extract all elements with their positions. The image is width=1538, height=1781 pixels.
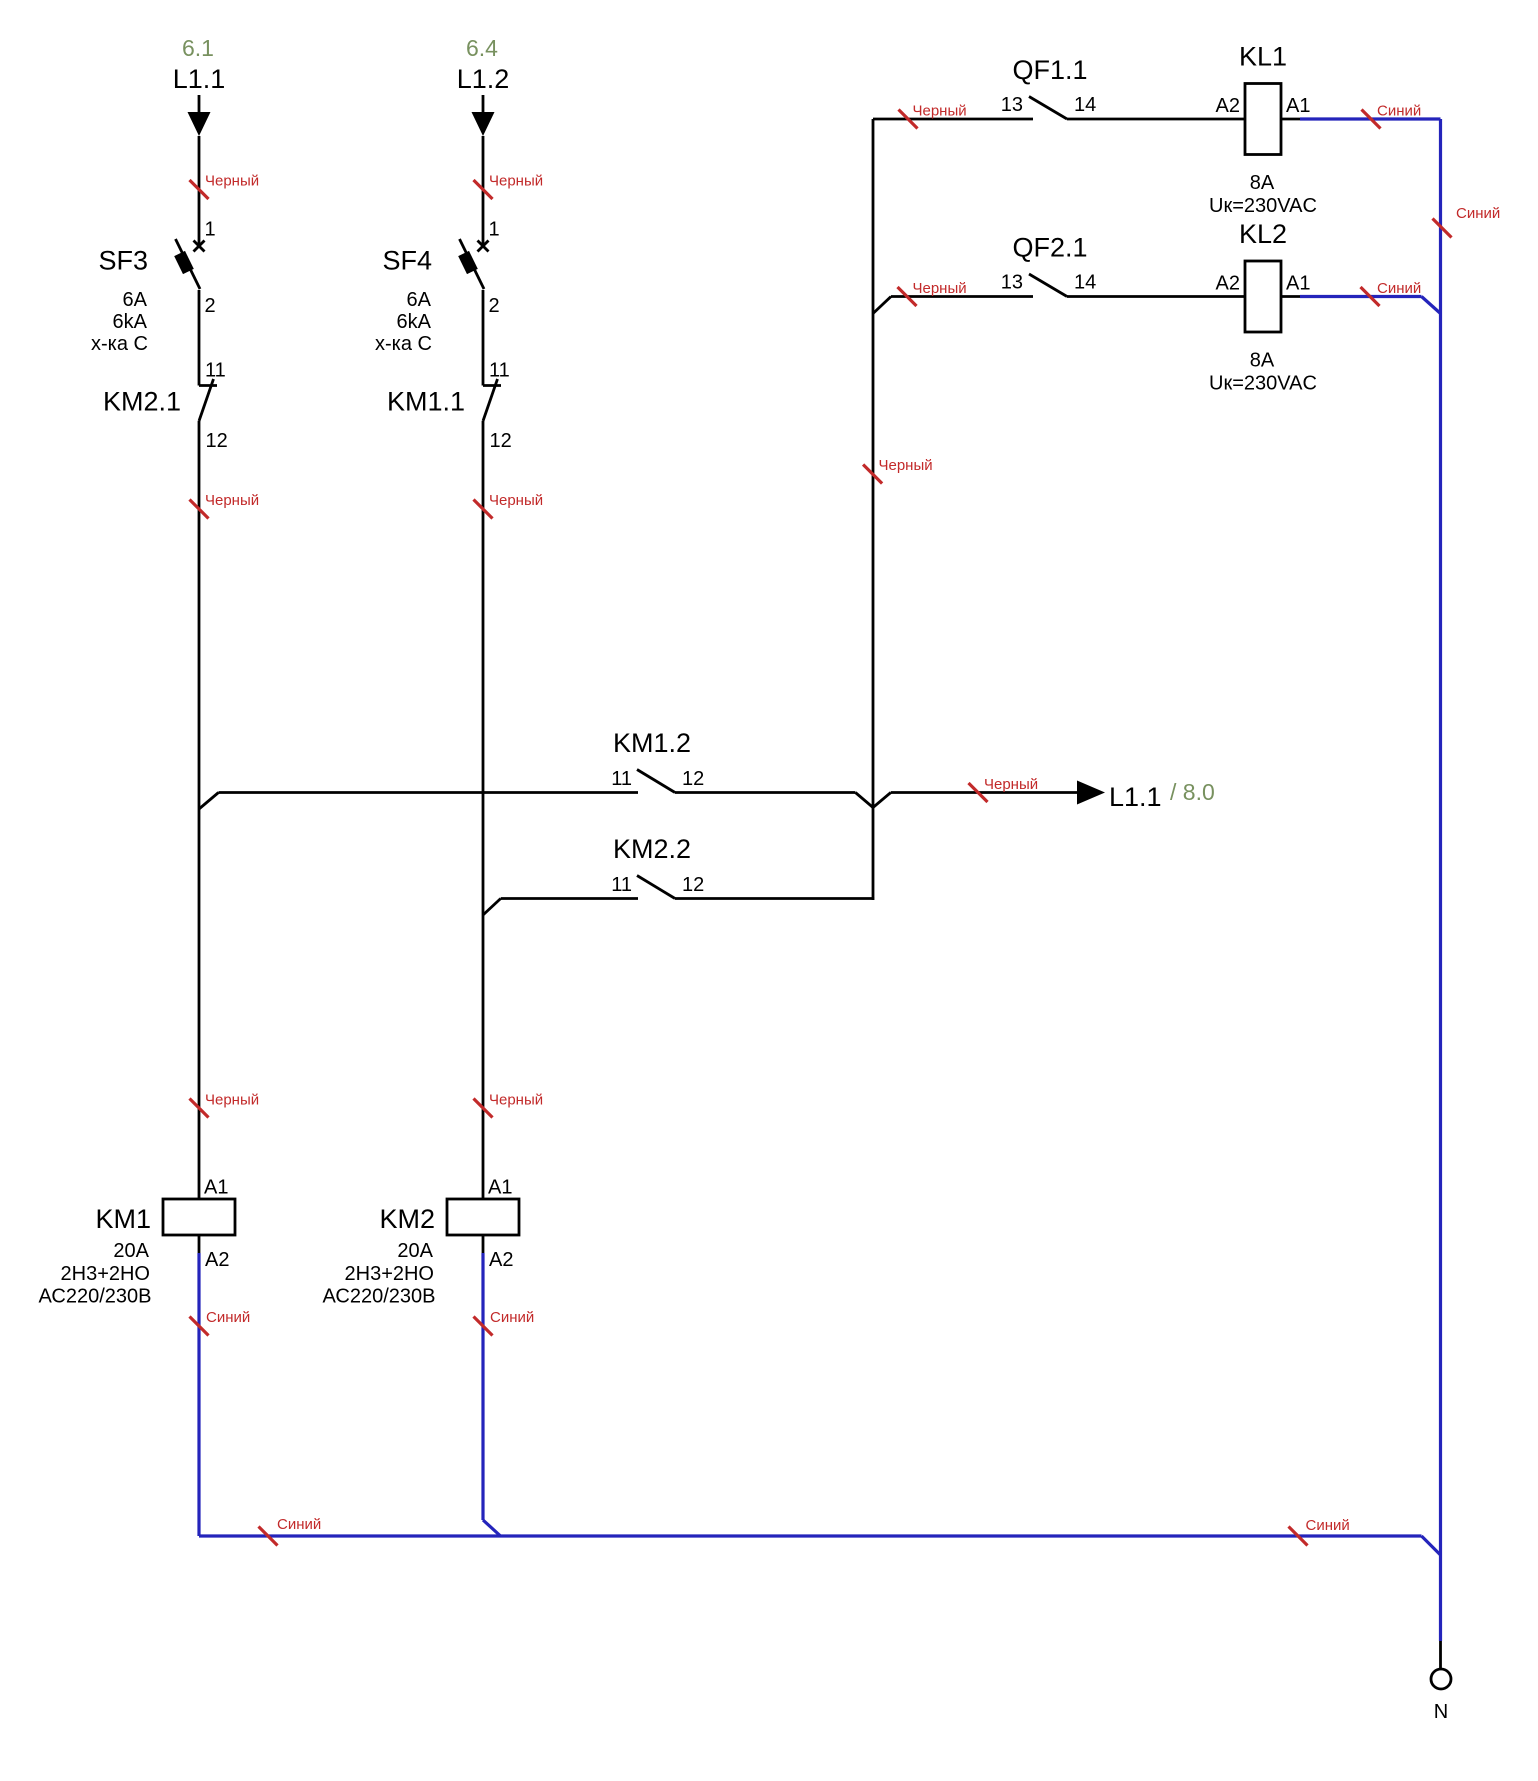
wire KL2 A1 stub bbox=[1281, 295, 1300, 298]
NO contact KM2.2 blade bbox=[637, 876, 675, 899]
svg-text:KL2: KL2 bbox=[1239, 219, 1287, 249]
svg-text:KM1: KM1 bbox=[95, 1204, 151, 1234]
svg-text:L1.1: L1.1 bbox=[173, 64, 226, 94]
wire color slash Черный bbox=[190, 500, 209, 519]
svg-text:6.4: 6.4 bbox=[466, 35, 498, 61]
wire L1.1 entry stub bbox=[198, 95, 201, 114]
wire color slash Черный bbox=[474, 500, 493, 519]
svg-text:13: 13 bbox=[1001, 94, 1023, 116]
wire KM1 A2 stub bbox=[198, 1235, 201, 1253]
svg-text:KM2.1: KM2.1 bbox=[103, 387, 181, 417]
terminal N circle bbox=[1431, 1669, 1451, 1689]
wire KM2.2 row left bbox=[501, 897, 638, 900]
NO contact QF1.1 blade bbox=[1029, 97, 1067, 120]
contactor coil KM2 bbox=[447, 1199, 519, 1235]
wire color slash Черный bbox=[474, 1099, 493, 1118]
svg-text:12: 12 bbox=[682, 768, 704, 790]
svg-text:Черный: Черный bbox=[879, 457, 933, 474]
svg-text:Uк=230VAC: Uк=230VAC bbox=[1209, 195, 1317, 217]
wire jog L1.2 branch to KM2.2 bbox=[483, 899, 501, 916]
wire N terminal stub (black) bbox=[1439, 1641, 1442, 1669]
source arrow L1.1 bbox=[188, 112, 211, 136]
svg-text:A1: A1 bbox=[1286, 95, 1310, 117]
wire QF1.1 row left bbox=[873, 118, 1033, 121]
wire KM1 A2 blue down to N bus bbox=[197, 1253, 200, 1536]
svg-text:12: 12 bbox=[206, 430, 228, 452]
svg-text:Черный: Черный bbox=[205, 492, 259, 509]
svg-text:2: 2 bbox=[205, 295, 216, 317]
wire QF2.1 row left bbox=[891, 295, 1033, 298]
svg-text:A1: A1 bbox=[1286, 273, 1310, 295]
svg-text:A2: A2 bbox=[205, 1249, 229, 1271]
svg-text:АС220/230В: АС220/230В bbox=[323, 1286, 436, 1308]
svg-text:14: 14 bbox=[1074, 272, 1096, 294]
svg-text:2: 2 bbox=[489, 295, 500, 317]
svg-text:A1: A1 bbox=[488, 1177, 512, 1199]
svg-text:6kA: 6kA bbox=[113, 311, 148, 333]
svg-text:KM2: KM2 bbox=[379, 1204, 435, 1234]
wire KM1.2 row left bbox=[219, 791, 639, 794]
wire control bus vertical (black) bbox=[872, 119, 875, 900]
wire SF3 pin2 to KM2.1 pin11 bbox=[198, 290, 201, 386]
svg-text:SF4: SF4 bbox=[382, 246, 432, 276]
svg-text:QF1.1: QF1.1 bbox=[1012, 55, 1087, 85]
wire color slash Черный bbox=[190, 180, 209, 199]
wire color slash Синий on riser bbox=[1433, 219, 1452, 238]
wire KM2.1 pin12 down to coil KM1 bbox=[198, 421, 201, 1199]
wire jog bus to QF2.1 bbox=[873, 297, 891, 314]
wire color slash Синий bbox=[1289, 1527, 1308, 1546]
svg-text:12: 12 bbox=[490, 430, 512, 452]
svg-text:N: N bbox=[1434, 1701, 1448, 1723]
destination arrow L1.1 bbox=[1077, 781, 1105, 805]
svg-text:SF3: SF3 bbox=[98, 246, 148, 276]
wire color slash Черный on bus bbox=[863, 465, 882, 484]
svg-text:Черный: Черный bbox=[913, 280, 967, 297]
wire color slash Синий bbox=[1361, 287, 1380, 306]
svg-text:KL1: KL1 bbox=[1239, 42, 1287, 72]
wire L1.1 to SF3 pin1 bbox=[198, 136, 201, 247]
wire jog L1.1 branch to KM1.2 bbox=[199, 793, 219, 810]
svg-text:14: 14 bbox=[1074, 94, 1096, 116]
svg-text:11: 11 bbox=[611, 874, 632, 896]
wire color slash Синий bbox=[1362, 110, 1381, 129]
svg-text:Uк=230VAC: Uк=230VAC bbox=[1209, 373, 1317, 395]
relay coil KL2 bbox=[1245, 261, 1281, 332]
wire jog N bus to riser bbox=[1422, 1536, 1441, 1555]
svg-text:6.1: 6.1 bbox=[182, 35, 214, 61]
NC contact KM2.1 bbox=[199, 379, 217, 421]
svg-text:х-ка С: х-ка С bbox=[91, 333, 148, 355]
svg-text:20A: 20A bbox=[397, 1240, 433, 1262]
wire KL2 A1 blue to N riser bbox=[1300, 295, 1422, 298]
svg-text:L1.1: L1.1 bbox=[1109, 782, 1162, 812]
svg-text:11: 11 bbox=[205, 360, 226, 382]
NO contact QF2.1 blade bbox=[1029, 274, 1067, 297]
wire SF4 pin2 to KM1.1 pin11 bbox=[482, 290, 485, 386]
svg-text:1: 1 bbox=[205, 219, 216, 241]
wire color slash Черный bbox=[899, 110, 918, 129]
wire L1.2 entry stub bbox=[482, 95, 485, 114]
wire to L1.1 outgoing arrow bbox=[891, 791, 1077, 794]
svg-text:Синий: Синий bbox=[206, 1309, 250, 1326]
svg-text:A2: A2 bbox=[1216, 273, 1240, 295]
wire jog KL2 to N riser bbox=[1422, 297, 1441, 314]
wire KM2 A2 stub bbox=[482, 1235, 485, 1253]
svg-text:Синий: Синий bbox=[1456, 205, 1500, 222]
svg-text:8A: 8A bbox=[1250, 172, 1275, 194]
wire KM1.2 right bbox=[675, 791, 855, 794]
svg-text:Синий: Синий bbox=[1306, 1517, 1350, 1534]
circuit breaker SF4 bbox=[458, 239, 488, 289]
wire color slash Синий bbox=[190, 1317, 209, 1336]
svg-text:KM1.1: KM1.1 bbox=[387, 387, 465, 417]
wire L1.2 to SF4 pin1 bbox=[482, 136, 485, 247]
svg-text:L1.2: L1.2 bbox=[457, 64, 510, 94]
NO contact KM1.2 blade bbox=[637, 770, 675, 793]
source arrow L1.2 bbox=[472, 112, 495, 136]
svg-text:2Н3+2НО: 2Н3+2НО bbox=[345, 1263, 435, 1285]
svg-text:8A: 8A bbox=[1250, 350, 1275, 372]
svg-text:A2: A2 bbox=[1216, 95, 1240, 117]
svg-text:Черный: Черный bbox=[489, 173, 543, 190]
svg-text:QF2.1: QF2.1 bbox=[1012, 233, 1087, 263]
svg-text:х-ка С: х-ка С bbox=[375, 333, 432, 355]
wire N riser vertical (blue) bbox=[1439, 119, 1442, 1641]
svg-text:KM1.2: KM1.2 bbox=[613, 728, 691, 758]
svg-text:АС220/230В: АС220/230В bbox=[39, 1286, 152, 1308]
svg-text:Черный: Черный bbox=[205, 1092, 259, 1109]
svg-text:Черный: Черный bbox=[489, 492, 543, 509]
wire QF2.1 to KL2 A2 bbox=[1067, 295, 1245, 298]
NC contact KM1.1 bbox=[483, 379, 501, 421]
svg-text:13: 13 bbox=[1001, 272, 1023, 294]
wire KM2 A2 blue down to N bus bbox=[481, 1253, 484, 1520]
svg-text:11: 11 bbox=[611, 768, 632, 790]
svg-text:11: 11 bbox=[489, 360, 510, 382]
svg-text:A2: A2 bbox=[489, 1249, 513, 1271]
svg-text:Черный: Черный bbox=[913, 103, 967, 120]
circuit breaker SF3 bbox=[174, 239, 204, 289]
svg-text:6kA: 6kA bbox=[397, 311, 432, 333]
relay coil KL1 bbox=[1245, 84, 1281, 155]
junction V-jog at control bus bbox=[855, 793, 890, 808]
contactor coil KM1 bbox=[163, 1199, 235, 1235]
wire color slash Черный bbox=[190, 1099, 209, 1118]
svg-text:20A: 20A bbox=[113, 1240, 149, 1262]
wire KL1 A1 stub bbox=[1281, 118, 1300, 121]
svg-text:KM2.2: KM2.2 bbox=[613, 834, 691, 864]
wire KM2.2 right to control bus bbox=[675, 897, 874, 900]
svg-text:Синий: Синий bbox=[277, 1516, 321, 1533]
svg-text:6A: 6A bbox=[407, 289, 432, 311]
svg-text:Черный: Черный bbox=[984, 776, 1038, 793]
wire color slash Синий bbox=[474, 1317, 493, 1336]
wire KL1 A1 blue to N riser bbox=[1300, 117, 1441, 120]
svg-text:Синий: Синий bbox=[1377, 280, 1421, 297]
svg-text:2Н3+2НО: 2Н3+2НО bbox=[61, 1263, 151, 1285]
svg-text:12: 12 bbox=[682, 874, 704, 896]
wire N bus bottom (blue) bbox=[199, 1534, 1422, 1537]
svg-text:Черный: Черный bbox=[489, 1092, 543, 1109]
svg-text:Синий: Синий bbox=[1377, 103, 1421, 120]
svg-text:1: 1 bbox=[489, 219, 500, 241]
svg-text:Синий: Синий bbox=[490, 1309, 534, 1326]
svg-text:Черный: Черный bbox=[205, 173, 259, 190]
wire jog KM2 branch to N bus bbox=[483, 1520, 501, 1536]
wire color slash Черный bbox=[969, 783, 988, 802]
wire color slash Черный bbox=[474, 180, 493, 199]
svg-text:/ 8.0: / 8.0 bbox=[1170, 779, 1215, 805]
wire KM1.1 pin12 down to coil KM2 bbox=[482, 421, 485, 1199]
wire QF1.1 to KL1 A2 bbox=[1067, 118, 1245, 121]
svg-text:A1: A1 bbox=[204, 1177, 228, 1199]
wire color slash Черный bbox=[898, 287, 917, 306]
wire color slash Синий bbox=[259, 1527, 278, 1546]
svg-text:6A: 6A bbox=[123, 289, 148, 311]
